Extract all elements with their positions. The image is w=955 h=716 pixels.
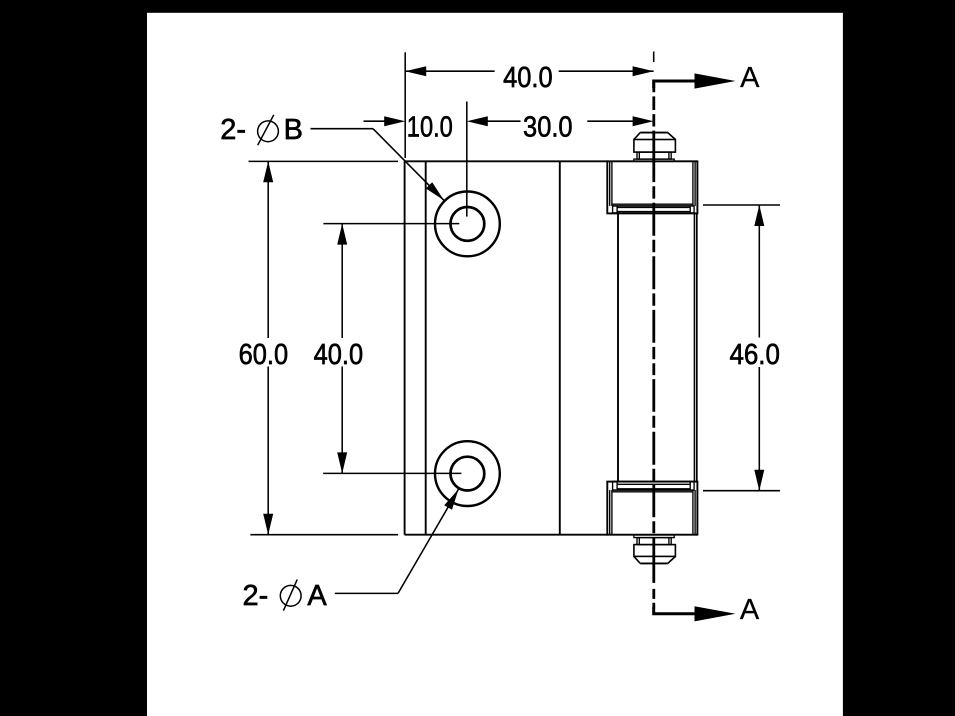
svg-text:60.0: 60.0 [239,339,289,371]
arrowhead leader B [426,182,444,200]
top knuckle inner wall lines [610,161,695,206]
section line elbow top [654,81,696,88]
svg-text:B: B [284,114,303,146]
section arrowhead top [695,73,736,88]
leader 2-phiB [311,129,444,201]
dimension extension lines [249,52,781,535]
leader 2-phiA [335,489,459,593]
ext line lower hole center [323,472,461,474]
svg-text:40.0: 40.0 [314,339,364,371]
dim line 46.0 [758,205,760,491]
leaf left edge [404,161,406,534]
svg-text:2-: 2- [243,580,269,612]
top pin cap neck [637,152,671,159]
arrowhead leader A [444,489,458,510]
ext line 60.0 bottom [250,534,398,536]
arrowhead 10.0 (outside, pointing right) [384,116,405,126]
svg-text:40.0: 40.0 [503,62,553,94]
barrel tube right edges [693,213,695,482]
lower hole outer circle [435,441,500,506]
arrowhead 40.0 left bottom [337,452,347,473]
ext line 46.0 top [703,204,780,206]
top knuckle outer box [607,161,697,213]
top washer band [613,206,695,213]
drawing sheet [147,13,843,716]
arrowhead 46.0 top [754,205,764,226]
arrowhead 60.0 bottom [263,514,273,535]
arrowhead 40.0 top right [633,66,654,76]
bottom pin cap neck [637,538,671,545]
svg-text:A: A [307,580,327,612]
svg-text:30.0: 30.0 [523,112,573,144]
ext line hole axis (10.0/30.0) [466,102,468,217]
section line elbow bottom [654,607,696,614]
leaf bend line left [425,161,427,534]
ext line upper hole center [323,223,459,225]
upper hole outer circle [435,192,500,257]
ext tick centerline top [653,52,655,63]
lower hole inner circle [451,457,485,491]
arrowhead 30.0 left [467,116,488,126]
arrowhead 30.0 right [633,116,654,126]
top pin cap chamfer [640,132,668,134]
arrowhead 46.0 bottom [754,470,764,491]
ext line left edge (40.0 top) [404,52,406,158]
barrel tube left edge [617,213,619,482]
svg-text:46.0: 46.0 [729,339,780,371]
svg-text:10.0: 10.0 [407,112,453,144]
bottom knuckle outer box [607,482,697,535]
phi symbol A [280,585,301,606]
dim line 40.0 top [405,70,653,72]
phi symbol B [258,121,279,142]
top pin cap body [634,140,676,153]
bottom washer band [613,481,695,490]
section arrowhead bottom [695,606,736,621]
svg-text:A: A [740,62,760,94]
dim line 60.0 [267,162,269,534]
pin centerline (dashed) [652,83,655,607]
bottom pin cap flange [634,535,674,538]
svg-text:2-: 2- [220,114,246,146]
bottom pin cap body [634,545,676,557]
arrowhead 40.0 top left [405,66,426,76]
arrowhead 40.0 left top [337,224,347,245]
bottom knuckle inner wall lines [610,490,695,535]
arrowhead 60.0 top [263,161,273,182]
top pin cap flange [634,159,674,161]
leaf bottom edge [405,534,608,536]
dim line 30.0 [487,120,634,122]
ext line 46.0 bottom [703,490,780,492]
dim line 10.0 outside tail [364,120,388,122]
upper hole inner circle [451,207,485,241]
svg-text:A: A [740,594,760,626]
leaf top edge [405,160,608,162]
bottom pin cap chamfer [640,562,668,564]
dim line 40.0 left [341,224,343,474]
ext line 60.0 top [249,160,399,162]
leaf bend line right [559,161,561,534]
